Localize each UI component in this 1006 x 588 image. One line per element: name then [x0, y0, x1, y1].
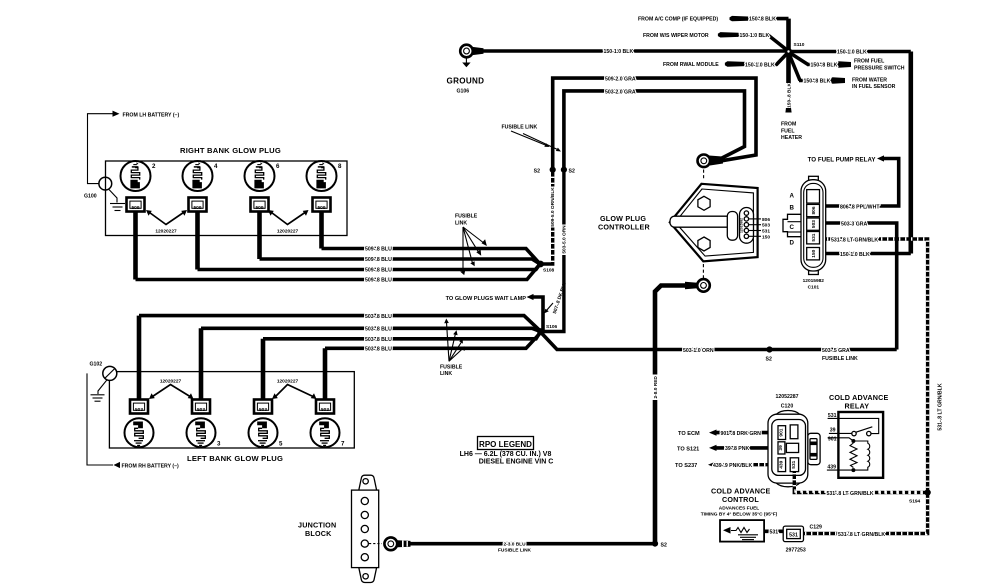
wire 2-8.0 RED from controller to S2: [655, 286, 686, 544]
connector 509 (plug 8): [313, 198, 331, 212]
glow plug 2: [121, 161, 151, 191]
svg-text:503-.8 BLU: 503-.8 BLU: [365, 347, 392, 353]
left bank glow plug wires to S106: [139, 316, 540, 400]
svg-text:806: 806: [811, 206, 817, 214]
svg-text:B: B: [790, 205, 795, 212]
svg-text:6: 6: [276, 163, 280, 170]
relay switch contacts: [852, 431, 856, 435]
svg-text:12015982: 12015982: [803, 278, 825, 284]
fusible link callout (top): [502, 125, 562, 152]
svg-text:531: 531: [770, 530, 779, 536]
svg-text:12020227: 12020227: [277, 378, 299, 384]
ground G106 ring terminal: [460, 45, 788, 67]
svg-text:509: 509: [131, 205, 139, 211]
svg-text:509: 509: [255, 205, 263, 211]
svg-text:503-.8 BLU: 503-.8 BLU: [365, 314, 392, 320]
svg-text:2-3.0 BLU: 2-3.0 BLU: [503, 542, 526, 548]
wire C129 dashed to S194: [804, 493, 928, 534]
wire label 2-8.0 RED: [651, 375, 658, 401]
relay pin 439: [827, 469, 852, 471]
glow plug 8: [307, 161, 337, 191]
svg-text:FUSIBLE LINK: FUSIBLE LINK: [502, 125, 538, 131]
svg-text:503-2.0 GRA: 503-2.0 GRA: [605, 89, 636, 95]
wire to water in fuel sensor: [789, 53, 801, 81]
cold advance relay box: [827, 412, 883, 478]
svg-text:509-.8 BLU: 509-.8 BLU: [365, 247, 392, 253]
svg-text:901-.8 DRK GRN: 901-.8 DRK GRN: [721, 431, 762, 437]
svg-text:150: 150: [811, 249, 817, 257]
splice S108: [537, 261, 544, 268]
svg-text:ADVANCES FUEL: ADVANCES FUEL: [719, 506, 759, 512]
wire from W/S wiper motor: [716, 32, 738, 37]
svg-text:3: 3: [217, 441, 221, 448]
svg-text:LINK: LINK: [440, 371, 452, 377]
splice S106: [537, 328, 544, 335]
svg-text:439-.9 PNK/BLK: 439-.9 PNK/BLK: [713, 463, 752, 469]
svg-text:PRESSURE SWITCH: PRESSURE SWITCH: [854, 65, 905, 71]
wire glow plug 8: [319, 212, 324, 249]
svg-text:RPO LEGEND: RPO LEGEND: [479, 440, 532, 449]
relay coil and resistor: [851, 439, 855, 443]
svg-text:509-.8 BLU: 509-.8 BLU: [365, 268, 392, 274]
wire glow plug 2: [133, 212, 138, 280]
callout 12020227 (plugs 5-7): [272, 378, 317, 399]
svg-text:8: 8: [338, 163, 342, 170]
wire 150-1.0 BLK from C101: [826, 252, 911, 256]
svg-text:TO S237: TO S237: [675, 463, 697, 469]
connector C101: [783, 176, 826, 274]
svg-text:503-1.0 ORN: 503-1.0 ORN: [683, 348, 714, 354]
wire control to C129: [764, 529, 783, 533]
svg-text:503-3 GRA: 503-3 GRA: [841, 221, 867, 227]
right bank glow plug wires to S108: [136, 212, 541, 280]
splice S110: [785, 48, 792, 55]
svg-text:G100: G100: [84, 194, 97, 200]
splice S2 (left): [550, 167, 556, 173]
wire down to fuel heater: [786, 52, 791, 109]
svg-text:TIMING BY 4° BELOW 35°C (95°F): TIMING BY 4° BELOW 35°C (95°F): [701, 512, 778, 518]
svg-text:150-.8 BLK: 150-.8 BLK: [804, 79, 831, 85]
svg-text:S2: S2: [569, 168, 575, 174]
glow plug 4: [183, 161, 213, 191]
svg-text:531: 531: [828, 413, 837, 419]
svg-text:12015982: 12015982: [740, 218, 744, 233]
splice S110 wires: [716, 16, 911, 254]
wait lamp wire: [527, 294, 544, 332]
svg-text:LEFT BANK GLOW PLUG: LEFT BANK GLOW PLUG: [187, 454, 283, 463]
controller bottom ring terminal: [685, 279, 710, 292]
svg-text:806-.8 PPL/WHT: 806-.8 PPL/WHT: [840, 204, 880, 210]
svg-text:S110: S110: [794, 42, 805, 48]
svg-text:TO FUEL PUMP RELAY: TO FUEL PUMP RELAY: [808, 157, 877, 164]
svg-text:150-1.0 BLK: 150-1.0 BLK: [837, 49, 867, 55]
fusible link callout (right bank): [455, 214, 487, 276]
svg-text:FROM FUEL: FROM FUEL: [854, 59, 885, 65]
splice S2 (bottom): [652, 541, 658, 547]
svg-text:509-2.0 GRA: 509-2.0 GRA: [605, 77, 636, 83]
svg-text:439: 439: [779, 460, 785, 468]
wire from A/C comp: [728, 16, 748, 21]
fusible link callout (left bank): [440, 319, 465, 377]
svg-text:509-.8 BLU: 509-.8 BLU: [365, 257, 392, 263]
svg-text:39-.8 PNK: 39-.8 PNK: [725, 446, 749, 452]
svg-text:2-8.0 RED: 2-8.0 RED: [653, 376, 659, 399]
svg-text:531-.8 LT GRN/BLK: 531-.8 LT GRN/BLK: [938, 383, 944, 430]
svg-text:GROUND: GROUND: [447, 77, 485, 86]
svg-text:TO ECM: TO ECM: [678, 431, 700, 437]
svg-text:531: 531: [789, 533, 798, 539]
relay pin 901: [828, 438, 854, 441]
wire glow plug 4: [195, 212, 200, 270]
svg-text:503: 503: [762, 223, 770, 229]
svg-text:2: 2: [152, 163, 156, 170]
svg-text:FUSIBLE: FUSIBLE: [455, 214, 478, 220]
glow plug 5: [249, 418, 278, 447]
RPO LEGEND: [460, 437, 554, 466]
svg-text:FUEL: FUEL: [781, 128, 795, 134]
svg-text:C: C: [790, 224, 795, 231]
splice S2 (on 503 wire): [766, 346, 772, 352]
connector 503 (plug 5): [254, 400, 272, 414]
connector 509 (plug 4): [189, 198, 207, 212]
relay pin 39: [829, 432, 852, 434]
svg-text:12052287: 12052287: [775, 394, 798, 400]
svg-text:531: 531: [762, 229, 770, 235]
wire glow plug 6: [257, 212, 262, 260]
wire C120-531 dashed to S194: [794, 472, 927, 493]
svg-text:503: 503: [811, 220, 817, 228]
connector 503 (plug 3): [192, 400, 210, 414]
wire TO S237 439-.9 PNK/BLK: [708, 462, 768, 468]
svg-text:C129: C129: [810, 524, 823, 530]
svg-text:A: A: [790, 193, 795, 200]
svg-text:2977253: 2977253: [786, 548, 806, 554]
svg-text:509: 509: [317, 205, 325, 211]
svg-text:LH6 — 6.2L (378 CU. IN.) V8: LH6 — 6.2L (378 CU. IN.) V8: [460, 451, 552, 458]
svg-text:FROM WATER: FROM WATER: [852, 77, 887, 83]
svg-text:IN FUEL SENSOR: IN FUEL SENSOR: [852, 84, 896, 90]
wire from RWAL module: [723, 61, 745, 66]
svg-text:S194: S194: [909, 498, 921, 504]
svg-text:LINK: LINK: [455, 221, 467, 227]
svg-text:FROM LH BATTERY (–): FROM LH BATTERY (–): [123, 112, 180, 118]
controller top ring terminal: [698, 155, 724, 181]
svg-text:12020227: 12020227: [155, 228, 177, 234]
svg-text:503: 503: [197, 407, 205, 413]
right bank box: [106, 161, 348, 236]
svg-text:531-.8 LT GRN/BLK: 531-.8 LT GRN/BLK: [827, 491, 874, 497]
wire label 503-5.0 ORN: [560, 225, 567, 256]
svg-text:531: 531: [811, 233, 817, 241]
callout 12020227 (plugs 6-8): [268, 210, 309, 234]
callout 12020227 (plugs 2-4): [146, 210, 187, 234]
svg-text:RIGHT BANK GLOW PLUG: RIGHT BANK GLOW PLUG: [180, 146, 281, 155]
svg-text:503-5.0 ORN: 503-5.0 ORN: [561, 225, 567, 254]
svg-text:FROM RWAL MODULE: FROM RWAL MODULE: [663, 62, 719, 68]
svg-text:CONTROL: CONTROL: [722, 495, 759, 504]
wire 2-3.0 BLU to S2: [411, 542, 653, 546]
svg-text:BLOCK: BLOCK: [305, 529, 332, 538]
svg-text:TO GLOW PLUGS WAIT LAMP: TO GLOW PLUGS WAIT LAMP: [446, 296, 527, 302]
wire 531-.8 LT GRN/BLK (dashed): [826, 239, 928, 493]
glow plug 1: [125, 418, 154, 447]
svg-text:DIESEL ENGINE VIN C: DIESEL ENGINE VIN C: [479, 459, 554, 466]
svg-text:439: 439: [827, 464, 836, 470]
svg-text:FUSIBLE: FUSIBLE: [440, 364, 463, 370]
relay pin 531: [828, 418, 879, 433]
svg-text:150-1.0 BLK: 150-1.0 BLK: [745, 62, 775, 68]
svg-text:503: 503: [135, 407, 143, 413]
connector 509 (plug 2): [127, 198, 145, 212]
svg-text:503: 503: [259, 407, 267, 413]
svg-text:G106: G106: [457, 89, 470, 95]
svg-text:TO S121: TO S121: [677, 446, 699, 452]
glow plug 7: [311, 418, 340, 447]
svg-text:FUSIBLE LINK: FUSIBLE LINK: [822, 356, 858, 362]
svg-text:531-.8 LT GRN/BLK: 531-.8 LT GRN/BLK: [838, 532, 885, 538]
connector C120: [768, 411, 820, 487]
wire 503-5.0 ORN S106 to S2: [540, 170, 564, 332]
svg-text:S108: S108: [543, 268, 555, 274]
svg-text:503-.5 GRA: 503-.5 GRA: [822, 348, 850, 354]
svg-text:S2: S2: [661, 542, 667, 548]
svg-text:FUSIBLE LINK: FUSIBLE LINK: [498, 548, 532, 554]
splice S2 (right): [561, 167, 567, 173]
wire 806-.8 PPL/WHT to fuel pump relay: [826, 155, 899, 206]
wire to RH battery: [87, 373, 120, 468]
svg-text:12020227: 12020227: [160, 378, 182, 384]
wire glow plug 1: [137, 316, 142, 400]
svg-text:503-.8 BLU: 503-.8 BLU: [365, 327, 392, 333]
callout 12020227 (plugs 1-3): [149, 378, 194, 399]
svg-text:C120: C120: [781, 403, 794, 409]
svg-text:HEATER: HEATER: [781, 135, 802, 141]
svg-text:150-.8 BLK: 150-.8 BLK: [811, 63, 838, 69]
wire glow plug 5: [261, 339, 266, 400]
connector 509 (plug 6): [251, 198, 269, 212]
svg-text:39: 39: [778, 445, 784, 451]
svg-text:FROM: FROM: [781, 122, 796, 128]
left bank box: [109, 372, 354, 448]
svg-text:509: 509: [193, 205, 201, 211]
svg-text:39: 39: [830, 428, 836, 434]
wire 503-2.0 GRA loop: [564, 91, 745, 170]
wire 509-2.0 GRA loop: [553, 78, 756, 170]
svg-text:503-.8 BLU: 503-.8 BLU: [365, 337, 392, 343]
wire label 150-.8 BLK vertical: [785, 83, 792, 108]
svg-text:FROM RH BATTERY (–): FROM RH BATTERY (–): [122, 463, 180, 469]
svg-text:G102: G102: [90, 361, 103, 367]
svg-text:C101: C101: [808, 285, 820, 291]
svg-text:531-.8 LT GRN/BLK: 531-.8 LT GRN/BLK: [831, 237, 878, 243]
wire 503-1.0 ORN / 503-.5 GRA: [540, 332, 897, 350]
svg-text:509-5.0 ORN/BLK: 509-5.0 ORN/BLK: [550, 187, 556, 227]
junction block: [352, 475, 383, 582]
wire 509-5.0 ORN/BLK (dashed) S108 to S2: [540, 170, 553, 264]
glow plug controller body: [670, 184, 761, 261]
controller bottom dashed link: [702, 264, 704, 278]
wire from LH battery to G100: [88, 111, 120, 184]
svg-text:901: 901: [828, 437, 837, 443]
wire glow plug 7: [323, 348, 328, 399]
svg-text:D: D: [790, 240, 795, 247]
svg-text:S106: S106: [546, 324, 558, 330]
svg-text:RELAY: RELAY: [845, 401, 870, 410]
svg-text:150-.8 BLK: 150-.8 BLK: [749, 17, 776, 23]
svg-text:FROM A/C COMP (IF EQUIPPED): FROM A/C COMP (IF EQUIPPED): [638, 17, 718, 23]
svg-text:531: 531: [791, 460, 797, 468]
wire label 507-.8 DK BLU: [544, 281, 568, 315]
svg-text:7: 7: [341, 441, 345, 448]
wire label 509-5.0 ORN/BLK: [549, 187, 556, 228]
glow plug 6: [245, 161, 275, 191]
wire TO S121 39-.8 PNK: [709, 445, 768, 451]
svg-text:150-1.0 BLK: 150-1.0 BLK: [840, 252, 870, 258]
svg-text:S2: S2: [766, 357, 772, 363]
svg-text:150-1.0 BLK: 150-1.0 BLK: [740, 33, 770, 39]
svg-text:150-.8 BLK: 150-.8 BLK: [786, 83, 792, 108]
wire 503-3 GRA: [826, 223, 897, 350]
svg-text:150: 150: [762, 234, 770, 240]
connector 503 (plug 1): [130, 400, 148, 414]
svg-text:806: 806: [762, 217, 770, 223]
wire right 150-1.0 BLK to vertical: [789, 50, 911, 54]
ground G100: [99, 177, 125, 210]
ground G102: [91, 366, 117, 401]
svg-text:S2: S2: [534, 168, 540, 174]
glow plug 3: [187, 418, 216, 447]
svg-text:4: 4: [214, 163, 218, 170]
svg-text:FROM W/S WIPER MOTOR: FROM W/S WIPER MOTOR: [643, 33, 709, 39]
wire TO ECM 901-.8 DRK GRN: [709, 430, 768, 436]
svg-text:CONTROLLER: CONTROLLER: [598, 223, 651, 232]
junction block ring terminal: [384, 537, 410, 550]
svg-text:150-1.0 BLK: 150-1.0 BLK: [604, 49, 634, 55]
svg-text:509-.8 BLU: 509-.8 BLU: [365, 278, 392, 284]
cold advance control box: [720, 520, 764, 542]
svg-text:12020227: 12020227: [277, 228, 299, 234]
connector 503 (plug 7): [316, 400, 334, 414]
svg-text:5: 5: [279, 441, 283, 448]
splice S194: [924, 489, 930, 495]
svg-text:503: 503: [321, 407, 329, 413]
connector C129: [783, 526, 803, 542]
wire to fuel pressure switch: [789, 52, 809, 65]
svg-text:901: 901: [779, 428, 785, 436]
wire glow plug 3: [199, 328, 204, 399]
